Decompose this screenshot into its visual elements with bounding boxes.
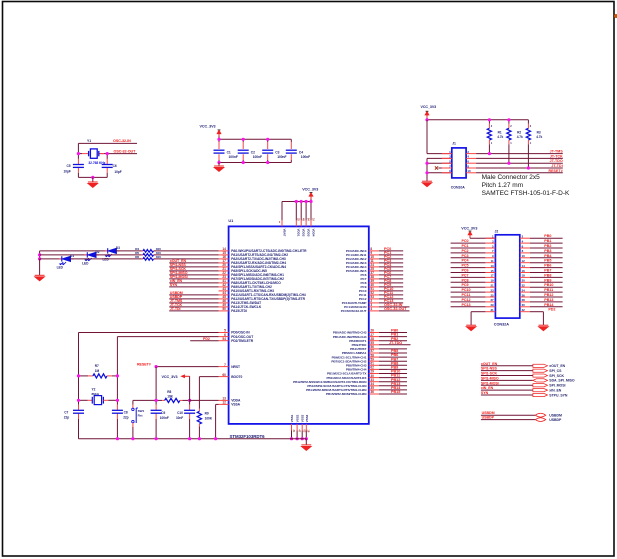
svg-text:SPI1-MISO: SPI1-MISO bbox=[481, 376, 499, 380]
svg-text:PB15: PB15 bbox=[391, 390, 400, 394]
svg-text:10nF: 10nF bbox=[176, 416, 183, 420]
svg-text:VCC_3V3: VCC_3V3 bbox=[461, 226, 477, 230]
svg-text:SAMTEC FTSH-105-01-F-D-K: SAMTEC FTSH-105-01-F-D-K bbox=[482, 190, 570, 197]
svg-text:22p: 22p bbox=[64, 415, 69, 419]
svg-text:C4: C4 bbox=[299, 150, 303, 154]
svg-text:PC9: PC9 bbox=[462, 283, 469, 287]
svg-text:100nF: 100nF bbox=[229, 155, 238, 159]
svg-text:xIN_EN: xIN_EN bbox=[481, 386, 494, 390]
svg-text:SPI_MOSI: SPI_MOSI bbox=[549, 384, 565, 388]
svg-text:PC15/OSC32-OUT: PC15/OSC32-OUT bbox=[341, 309, 367, 313]
svg-text:21: 21 bbox=[490, 284, 494, 288]
svg-text:C1: C1 bbox=[227, 150, 231, 154]
svg-text:JT-TDO: JT-TDO bbox=[550, 159, 563, 163]
svg-text:U1: U1 bbox=[228, 219, 233, 223]
svg-text:25: 25 bbox=[490, 293, 494, 297]
svg-text:100nF: 100nF bbox=[160, 416, 169, 420]
svg-text:C3: C3 bbox=[275, 150, 279, 154]
svg-text:VCC_3V3: VCC_3V3 bbox=[200, 125, 216, 129]
svg-text:CON10A: CON10A bbox=[451, 186, 465, 190]
svg-text:PA15/JTDI: PA15/JTDI bbox=[231, 309, 247, 313]
svg-text:JT-TDI: JT-TDI bbox=[170, 307, 181, 311]
svg-text:PB9: PB9 bbox=[544, 278, 551, 282]
svg-text:JT-TCK: JT-TCK bbox=[550, 154, 563, 158]
svg-text:LED: LED bbox=[82, 262, 89, 266]
svg-text:22p: 22p bbox=[123, 415, 128, 419]
svg-text:4.7k: 4.7k bbox=[536, 135, 542, 139]
svg-text:18: 18 bbox=[522, 274, 526, 278]
svg-text:PD2/TIM3-ETR: PD2/TIM3-ETR bbox=[231, 339, 254, 343]
svg-text:SDA_SPI_MISO: SDA_SPI_MISO bbox=[549, 379, 575, 383]
svg-text:31: 31 bbox=[490, 308, 494, 312]
svg-text:C8: C8 bbox=[124, 410, 128, 414]
svg-text:29: 29 bbox=[490, 303, 494, 307]
svg-text:USBDM: USBDM bbox=[549, 414, 562, 418]
svg-text:C9: C9 bbox=[161, 411, 165, 415]
svg-text:USBDM: USBDM bbox=[482, 411, 495, 415]
svg-text:4.7k: 4.7k bbox=[517, 135, 523, 139]
svg-text:VDD2: VDD2 bbox=[302, 229, 306, 237]
svg-text:SPI1-MOSI: SPI1-MOSI bbox=[481, 381, 499, 385]
svg-text:100nF: 100nF bbox=[301, 155, 310, 159]
svg-text:100nF: 100nF bbox=[253, 155, 262, 159]
svg-text:OSC-32-OUT: OSC-32-OUT bbox=[114, 149, 137, 153]
svg-text:PB8: PB8 bbox=[544, 273, 551, 277]
svg-text:D2: D2 bbox=[96, 250, 100, 254]
svg-text:4: 4 bbox=[370, 307, 372, 311]
svg-text:PC13: PC13 bbox=[462, 303, 471, 307]
svg-text:PC0: PC0 bbox=[462, 239, 469, 243]
svg-text:PC8: PC8 bbox=[462, 278, 469, 282]
svg-text:PC6: PC6 bbox=[462, 269, 469, 273]
svg-text:PC4: PC4 bbox=[462, 259, 470, 263]
svg-text:1M: 1M bbox=[95, 369, 100, 373]
svg-text:19: 19 bbox=[490, 279, 494, 283]
svg-text:36: 36 bbox=[370, 390, 374, 394]
svg-text:USBDP: USBDP bbox=[549, 418, 562, 422]
svg-text:11: 11 bbox=[491, 259, 494, 263]
svg-text:32: 32 bbox=[522, 308, 526, 312]
svg-text:20: 20 bbox=[522, 279, 526, 283]
svg-text:10: 10 bbox=[522, 254, 526, 258]
svg-text:Male Connector 2x5: Male Connector 2x5 bbox=[482, 174, 541, 181]
svg-text:PD2: PD2 bbox=[548, 308, 555, 312]
svg-text:Pitch 1.27 mm: Pitch 1.27 mm bbox=[482, 182, 524, 189]
svg-text:PB3: PB3 bbox=[544, 249, 551, 253]
svg-text:PB11: PB11 bbox=[544, 288, 553, 292]
svg-text:14: 14 bbox=[522, 264, 526, 268]
svg-text:27: 27 bbox=[490, 298, 494, 302]
svg-text:300: 300 bbox=[156, 255, 161, 259]
svg-text:VCC_3V3: VCC_3V3 bbox=[302, 188, 318, 192]
svg-text:12: 12 bbox=[222, 401, 226, 405]
svg-text:SYN: SYN bbox=[170, 283, 178, 287]
svg-text:NRST: NRST bbox=[231, 365, 240, 369]
svg-text:VSS4: VSS4 bbox=[305, 414, 309, 422]
svg-text:24: 24 bbox=[522, 288, 526, 292]
svg-text:12: 12 bbox=[522, 259, 526, 263]
svg-text:VDD3: VDD3 bbox=[307, 229, 311, 237]
svg-text:28: 28 bbox=[522, 298, 526, 302]
svg-text:R1: R1 bbox=[498, 130, 502, 134]
svg-text:SW1: SW1 bbox=[138, 409, 145, 413]
svg-text:17: 17 bbox=[490, 274, 494, 278]
svg-text:LED: LED bbox=[103, 258, 110, 262]
svg-text:SPI1-SCK: SPI1-SCK bbox=[481, 372, 498, 376]
svg-text:C5: C5 bbox=[67, 164, 71, 168]
svg-text:R8: R8 bbox=[167, 390, 171, 394]
svg-text:Y2: Y2 bbox=[92, 387, 96, 391]
svg-text:PC11: PC11 bbox=[462, 293, 471, 297]
svg-text:PB0: PB0 bbox=[544, 234, 551, 238]
svg-text:D3: D3 bbox=[116, 246, 120, 250]
svg-text:PC3: PC3 bbox=[462, 254, 469, 258]
svg-text:PC1: PC1 bbox=[462, 244, 469, 248]
svg-text:SPI_CS: SPI_CS bbox=[549, 369, 562, 373]
svg-text:PB14: PB14 bbox=[544, 303, 554, 307]
svg-text:C7: C7 bbox=[64, 410, 68, 414]
svg-text:RESET#: RESET# bbox=[548, 169, 562, 173]
svg-text:8MHz: 8MHz bbox=[92, 392, 100, 396]
svg-text:30: 30 bbox=[522, 303, 526, 307]
svg-text:VSSA: VSSA bbox=[231, 403, 240, 407]
svg-text:xOUT_EN: xOUT_EN bbox=[549, 364, 565, 368]
svg-text:R6: R6 bbox=[135, 255, 139, 259]
svg-text:PC2: PC2 bbox=[462, 249, 469, 253]
svg-text:JT-TDO: JT-TDO bbox=[389, 341, 402, 345]
svg-text:PC5: PC5 bbox=[462, 264, 469, 268]
svg-text:PB12: PB12 bbox=[544, 293, 553, 297]
svg-text:LED: LED bbox=[57, 266, 64, 270]
svg-text:10K: 10K bbox=[167, 394, 173, 398]
svg-text:Rst: Rst bbox=[138, 414, 143, 418]
svg-text:VCC_3V3: VCC_3V3 bbox=[161, 375, 177, 379]
svg-text:10pF: 10pF bbox=[64, 170, 71, 174]
svg-text:VCC_3V3: VCC_3V3 bbox=[421, 105, 437, 109]
svg-text:13: 13 bbox=[490, 264, 494, 268]
svg-text:C6: C6 bbox=[113, 164, 117, 168]
svg-text:PB13: PB13 bbox=[544, 298, 553, 302]
svg-text:PC7: PC7 bbox=[462, 273, 469, 277]
svg-text:xOUT_EN: xOUT_EN bbox=[481, 362, 498, 366]
svg-text:C10: C10 bbox=[177, 411, 183, 415]
svg-text:PC10: PC10 bbox=[462, 288, 471, 292]
svg-text:VDD1: VDD1 bbox=[297, 229, 301, 237]
svg-text:16: 16 bbox=[522, 269, 526, 273]
svg-text:PB2: PB2 bbox=[544, 244, 551, 248]
svg-text:BOOT0: BOOT0 bbox=[231, 375, 242, 379]
svg-text:54: 54 bbox=[222, 337, 226, 341]
svg-text:OSC-32-IN: OSC-32-IN bbox=[113, 139, 131, 143]
svg-text:100nF: 100nF bbox=[277, 155, 286, 159]
svg-text:JT-TMS: JT-TMS bbox=[550, 150, 564, 154]
svg-text:R2: R2 bbox=[517, 130, 521, 134]
svg-text:4.7k: 4.7k bbox=[497, 135, 503, 139]
svg-text:7: 7 bbox=[224, 363, 226, 367]
svg-text:10pF: 10pF bbox=[114, 170, 121, 174]
svg-text:PB7: PB7 bbox=[544, 269, 551, 273]
svg-text:C2: C2 bbox=[251, 150, 255, 154]
svg-text:VSS1: VSS1 bbox=[290, 414, 294, 422]
svg-text:PB15/SPI2-MOSI/TIM1-CH3N: PB15/SPI2-MOSI/TIM1-CH3N bbox=[326, 392, 367, 396]
svg-text:32.768 KHz: 32.768 KHz bbox=[88, 161, 105, 165]
svg-text:60: 60 bbox=[222, 373, 226, 377]
svg-text:PB5: PB5 bbox=[544, 259, 551, 263]
svg-text:J1: J1 bbox=[452, 141, 456, 145]
svg-text:PB1: PB1 bbox=[544, 239, 551, 243]
svg-text:R3: R3 bbox=[537, 130, 541, 134]
svg-text:R9: R9 bbox=[205, 411, 209, 415]
svg-text:R7: R7 bbox=[95, 364, 99, 368]
svg-text:USBDP: USBDP bbox=[482, 416, 495, 420]
svg-text:VBAT: VBAT bbox=[282, 229, 286, 237]
svg-text:D1: D1 bbox=[70, 254, 74, 258]
svg-text:STPU_SYN: STPU_SYN bbox=[549, 393, 568, 397]
svg-text:PB4: PB4 bbox=[544, 254, 552, 258]
svg-text:PB10: PB10 bbox=[544, 283, 553, 287]
svg-text:Y1: Y1 bbox=[87, 139, 91, 143]
svg-text:SYN: SYN bbox=[481, 391, 489, 395]
svg-text:PB6: PB6 bbox=[544, 264, 551, 268]
svg-text:CON32A: CON32A bbox=[494, 323, 509, 327]
svg-text:xIN_EN: xIN_EN bbox=[549, 388, 561, 392]
svg-text:RESET#: RESET# bbox=[137, 363, 151, 367]
svg-text:100K: 100K bbox=[205, 416, 213, 420]
svg-text:VDD4: VDD4 bbox=[311, 229, 315, 237]
svg-text:23: 23 bbox=[490, 288, 494, 292]
svg-text:26: 26 bbox=[522, 293, 526, 297]
svg-text:SPI1-NSS: SPI1-NSS bbox=[481, 367, 498, 371]
svg-text:J2: J2 bbox=[495, 229, 499, 233]
svg-text:PC12: PC12 bbox=[462, 298, 471, 302]
svg-text:VSS2: VSS2 bbox=[296, 414, 300, 422]
svg-text:OSC-32-OUT: OSC-32-OUT bbox=[384, 307, 407, 311]
svg-text:22: 22 bbox=[522, 284, 526, 288]
svg-text:15: 15 bbox=[490, 269, 494, 273]
svg-text:10: 10 bbox=[467, 169, 471, 173]
svg-text:SPI_SCK: SPI_SCK bbox=[549, 374, 564, 378]
svg-text:JT-TDI: JT-TDI bbox=[551, 164, 562, 168]
svg-text:50: 50 bbox=[222, 307, 226, 311]
svg-text:PD2: PD2 bbox=[203, 337, 210, 341]
